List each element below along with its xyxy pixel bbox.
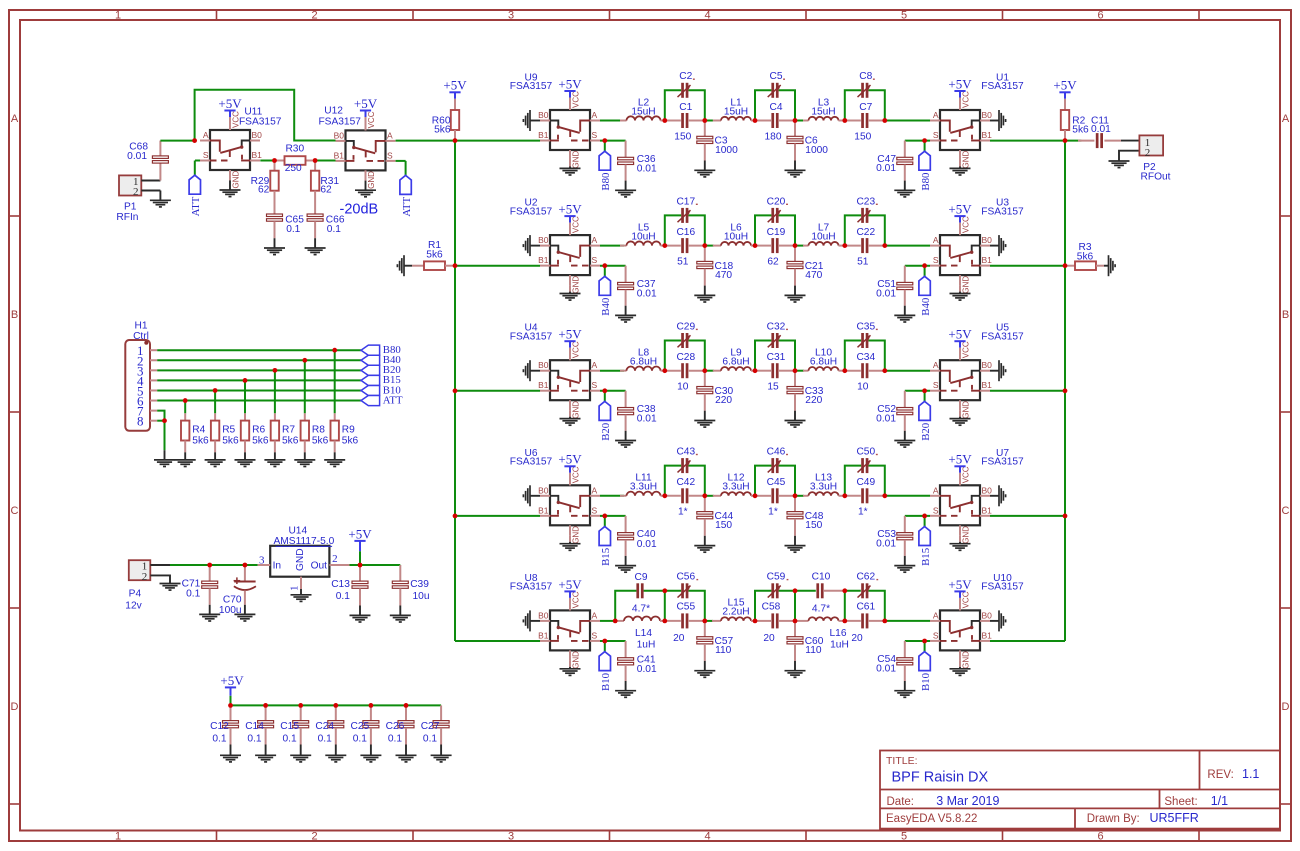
wire H1 pins 7-8 to ground [157, 411, 164, 451]
ground [950, 535, 971, 550]
svg-text:15: 15 [767, 382, 779, 393]
svg-text:6.8uH: 6.8uH [810, 357, 837, 368]
svg-text:C9: C9 [634, 572, 647, 583]
svg-text:A: A [592, 110, 598, 120]
svg-text:B1: B1 [538, 505, 549, 515]
power +5V U8 [558, 577, 582, 611]
ground [324, 452, 345, 466]
capacitor C21 470 shunt [787, 246, 824, 286]
capacitor trimmer C2 [678, 71, 695, 98]
junction [228, 703, 233, 708]
svg-text:A: A [387, 130, 393, 140]
op-amp U1 FSA3157 analog switch [930, 73, 1024, 169]
junction [1063, 514, 1068, 519]
junction [453, 263, 458, 268]
svg-text:220: 220 [715, 395, 732, 406]
svg-text:S: S [203, 150, 209, 160]
capacitor trimmer C20 [767, 196, 788, 223]
svg-text:1000: 1000 [715, 145, 738, 156]
svg-text:GND: GND [962, 276, 971, 294]
capacitor C38 0.01 [618, 391, 657, 431]
svg-text:1/1: 1/1 [1211, 794, 1228, 808]
junction [753, 368, 758, 373]
junction [272, 158, 277, 163]
wire [885, 120, 930, 122]
svg-text:A: A [592, 360, 598, 370]
ground [199, 605, 220, 621]
svg-text:5k6: 5k6 [222, 436, 239, 447]
junction [793, 493, 798, 498]
inductor L16 1uH [795, 617, 849, 650]
svg-text:1*: 1* [858, 507, 868, 518]
ground [220, 170, 241, 197]
svg-text:1uH: 1uH [637, 639, 656, 650]
net label B80 [919, 141, 932, 191]
ground [894, 181, 915, 197]
ground [234, 605, 255, 621]
svg-text:0.01: 0.01 [127, 151, 147, 162]
wire U1 B1 to bus [990, 140, 1065, 142]
wire H1 pin 6 [157, 400, 361, 402]
svg-text:ATT: ATT [383, 394, 403, 406]
ground [325, 745, 346, 762]
svg-text:250: 250 [285, 163, 302, 174]
resistor R29 62 [251, 161, 279, 215]
svg-text:GND: GND [232, 171, 241, 189]
svg-text:180: 180 [765, 131, 782, 142]
svg-text:A: A [1282, 113, 1290, 125]
svg-text:Sheet:: Sheet: [1164, 796, 1197, 808]
svg-text:C1: C1 [679, 102, 692, 113]
junction [922, 388, 927, 393]
junction [702, 493, 707, 498]
svg-text:0.1: 0.1 [212, 734, 226, 745]
net label B40 [599, 266, 612, 316]
wire parallel branch [615, 591, 665, 621]
capacitor C54 0.01 [876, 641, 913, 681]
ground rotated no-connect U3 B0 [990, 235, 1006, 256]
svg-text:P4: P4 [129, 589, 142, 600]
svg-text:FSA3157: FSA3157 [510, 81, 553, 92]
wire [905, 390, 930, 392]
svg-text:B15: B15 [920, 548, 932, 566]
svg-text:C34: C34 [856, 352, 875, 363]
svg-text:Drawn By:: Drawn By: [1087, 813, 1140, 825]
svg-text:12v: 12v [125, 601, 142, 612]
svg-text:2: 2 [311, 9, 317, 21]
junction [702, 368, 707, 373]
svg-text:B1: B1 [538, 630, 549, 640]
ground [950, 660, 971, 675]
ground [264, 452, 285, 466]
svg-text:B: B [11, 309, 18, 321]
svg-text:GND: GND [572, 151, 581, 169]
svg-text:B1: B1 [982, 380, 993, 390]
svg-text:C70: C70 [223, 594, 242, 605]
svg-text:B0: B0 [538, 360, 549, 370]
wire H1 pin 1 [157, 349, 361, 351]
ground [431, 745, 452, 762]
svg-text:C: C [1282, 505, 1290, 517]
svg-text:FSA3157: FSA3157 [981, 457, 1024, 468]
ground [154, 450, 175, 466]
svg-text:3 Mar 2019: 3 Mar 2019 [936, 794, 999, 808]
svg-text:2.2uH: 2.2uH [722, 607, 749, 618]
svg-text:B1: B1 [538, 130, 549, 140]
wire parallel branch [665, 466, 705, 496]
svg-text:S: S [933, 505, 939, 515]
net label B80 [599, 141, 612, 191]
svg-text:C32: C32 [767, 321, 786, 332]
resistor R31 62 [311, 161, 340, 215]
capacitor C70 100u polarized [219, 565, 256, 616]
capacitor C4 180 [755, 102, 795, 143]
op-amp U2 FSA3157 analog switch [510, 198, 600, 294]
junction [263, 703, 268, 708]
ground [220, 745, 241, 762]
svg-text:C16: C16 [676, 227, 695, 238]
svg-text:B0: B0 [982, 485, 993, 495]
junction [602, 514, 607, 519]
capacitor C44 150 shunt [697, 496, 734, 536]
svg-text:S: S [592, 505, 598, 515]
svg-text:1000: 1000 [805, 145, 828, 156]
svg-text:U12: U12 [324, 105, 343, 116]
ground [355, 170, 376, 196]
capacitor C30 220 shunt [697, 371, 734, 411]
wire parallel branch [845, 466, 885, 496]
op-amp U10 FSA3157 analog switch [930, 573, 1024, 669]
svg-text:A: A [933, 360, 939, 370]
ground [894, 431, 915, 447]
junction [882, 243, 887, 248]
wire parallel branch [665, 215, 705, 245]
capacitor C61 20 [845, 601, 885, 644]
ground rotated no-connect U6 B0 [523, 485, 540, 506]
svg-text:B0: B0 [334, 130, 345, 140]
wire parallel branch [755, 591, 795, 621]
op-amp U7 FSA3157 analog switch [930, 448, 1024, 544]
wire [905, 265, 930, 267]
wire U12 A to bus [396, 140, 455, 142]
resistor R60 5k6 pullup [432, 78, 467, 141]
inductor L14 1uH [615, 616, 665, 650]
junction [793, 243, 798, 248]
svg-text:GND: GND [572, 651, 581, 669]
svg-text:+5V: +5V [948, 327, 972, 342]
net label B20 [599, 391, 612, 441]
capacitor C3 1000 shunt [697, 121, 738, 161]
ground [894, 681, 915, 697]
svg-text:C4: C4 [769, 102, 782, 113]
resistor R5 5k6 [211, 413, 239, 452]
svg-text:+5V: +5V [558, 577, 582, 592]
junction [922, 639, 927, 644]
svg-text:GND: GND [962, 651, 971, 669]
svg-text:S: S [592, 255, 598, 265]
svg-text:C28: C28 [676, 352, 695, 363]
wire H1 pin 5 [157, 389, 361, 391]
svg-text:A: A [592, 235, 598, 245]
wire parallel branch [755, 90, 795, 120]
junction [613, 619, 618, 624]
svg-text:6.8uH: 6.8uH [722, 357, 749, 368]
svg-text:S: S [933, 255, 939, 265]
svg-text:C10: C10 [812, 572, 831, 583]
wire [184, 401, 186, 414]
svg-text:20: 20 [673, 633, 685, 644]
capacitor C18 470 shunt [697, 246, 734, 286]
svg-text:0.01: 0.01 [1091, 124, 1111, 135]
svg-text:C26: C26 [386, 721, 405, 732]
ground [390, 606, 411, 623]
svg-text:10uH: 10uH [724, 231, 748, 242]
ground [305, 238, 326, 254]
svg-text:1*: 1* [768, 507, 778, 518]
svg-text:C61: C61 [856, 601, 875, 612]
power +5V U12 [354, 96, 378, 130]
capacitor C24 0.1 [315, 705, 343, 744]
ground [950, 285, 971, 300]
wire [905, 640, 930, 642]
power +5V U3 [948, 202, 972, 236]
svg-text:5k6: 5k6 [342, 436, 359, 447]
svg-text:20: 20 [851, 633, 863, 644]
ground [396, 745, 417, 762]
svg-text:S: S [933, 130, 939, 140]
svg-text:1: 1 [115, 830, 121, 842]
capacitor trimmer C50 [856, 447, 877, 474]
wire bus to U9 B1 [455, 140, 540, 142]
svg-text:C62: C62 [856, 572, 875, 583]
svg-text:C39: C39 [410, 579, 429, 590]
capacitor C55 20 [665, 601, 705, 644]
svg-text:0.1: 0.1 [327, 224, 341, 235]
wire H1 pin 4 [157, 379, 361, 381]
svg-text:1: 1 [115, 9, 121, 21]
junction [702, 619, 707, 624]
svg-text:3: 3 [508, 9, 514, 21]
wire U10 B1 to bus [990, 640, 1065, 642]
svg-text:10: 10 [857, 382, 869, 393]
wire bypass to U12 B0 [195, 90, 336, 141]
svg-text:+5V: +5V [443, 78, 467, 93]
ground [894, 556, 915, 572]
svg-text:B1: B1 [538, 255, 549, 265]
wire U3 B1 to bus [990, 265, 1065, 267]
wire [905, 515, 930, 517]
capacitor trimmer C8 [858, 71, 875, 98]
svg-text:C59: C59 [767, 572, 786, 583]
ground [694, 411, 715, 427]
svg-text:B80: B80 [920, 173, 932, 191]
svg-text:+5V: +5V [948, 452, 972, 467]
wire [350, 564, 401, 566]
svg-text:B0: B0 [982, 235, 993, 245]
capacitor C71 0.1 [182, 565, 218, 605]
resistor R9 5k6 [331, 413, 359, 452]
inductor L8 6.8uH [620, 348, 665, 371]
svg-text:0.1: 0.1 [423, 734, 437, 745]
capacitor C26 0.1 [386, 705, 414, 744]
ground [560, 410, 581, 425]
svg-text:C7: C7 [859, 102, 872, 113]
inductor L5 10uH [620, 222, 665, 245]
svg-text:0.1: 0.1 [353, 734, 367, 745]
junction [453, 388, 458, 393]
svg-text:2: 2 [332, 553, 338, 565]
resistor R6 5k6 [241, 413, 269, 452]
svg-text:10: 10 [677, 382, 689, 393]
capacitor C6 1000 shunt [787, 121, 828, 161]
junction [753, 243, 758, 248]
wire parallel branch [755, 466, 795, 496]
wire [885, 620, 930, 622]
power +5V U14 output [348, 526, 372, 565]
svg-text:B0: B0 [538, 610, 549, 620]
svg-text:GND: GND [572, 276, 581, 294]
svg-text:B15: B15 [600, 548, 612, 566]
svg-text:A: A [592, 485, 598, 495]
svg-text:L16: L16 [830, 628, 847, 639]
svg-text:0.1: 0.1 [186, 588, 200, 599]
junction [882, 493, 887, 498]
svg-text:C29: C29 [676, 321, 695, 332]
svg-text:+5V: +5V [558, 452, 582, 467]
inductor L10 6.8uH [795, 348, 845, 371]
svg-text:B0: B0 [538, 485, 549, 495]
capacitor C16 51 [665, 227, 705, 268]
svg-text:VCC: VCC [367, 111, 376, 128]
junction [313, 158, 318, 163]
wire parallel branch [845, 215, 885, 245]
svg-text:A: A [933, 235, 939, 245]
svg-text:A: A [933, 610, 939, 620]
resistor R8 5k6 [301, 413, 329, 452]
svg-text:5k6: 5k6 [192, 436, 209, 447]
op-amp U5 FSA3157 analog switch [930, 323, 1024, 419]
svg-text:+5V: +5V [348, 526, 372, 541]
capacitor C13 0.1 [331, 565, 368, 606]
capacitor C51 0.01 [876, 266, 913, 306]
svg-text:P1: P1 [124, 202, 137, 213]
capacitor C11 0.01 output coupling [1065, 116, 1121, 149]
svg-text:4: 4 [704, 9, 710, 21]
svg-text:GND: GND [962, 526, 971, 544]
capacitor trimmer C59 [767, 572, 789, 599]
power +5V U6 [558, 452, 582, 486]
svg-text:UR5FFR: UR5FFR [1150, 811, 1199, 825]
svg-text:C23: C23 [856, 196, 875, 207]
wire [315, 160, 335, 162]
net label B15 [919, 516, 932, 566]
svg-text:2: 2 [1145, 147, 1151, 159]
svg-text:470: 470 [805, 270, 822, 281]
wire parallel branch [755, 341, 795, 371]
svg-text:6: 6 [1097, 830, 1103, 842]
junction [753, 493, 758, 498]
svg-text:GND: GND [962, 151, 971, 169]
svg-text:VCC: VCC [572, 591, 581, 608]
junction [183, 398, 188, 403]
ground rotated no-connect U10 B0 [990, 610, 1006, 631]
svg-text:C56: C56 [676, 572, 695, 583]
ground [785, 661, 806, 677]
svg-text:5: 5 [901, 9, 907, 21]
resistor R2 5k6 pullup [1053, 78, 1089, 141]
junction [162, 418, 167, 423]
wire [170, 564, 258, 566]
junction [332, 348, 337, 353]
svg-text:+5V: +5V [354, 96, 378, 111]
junction [842, 118, 847, 123]
capacitor C48 150 shunt [787, 496, 824, 536]
op-amp U6 FSA3157 analog switch [510, 448, 600, 544]
svg-text:150: 150 [854, 131, 871, 142]
junction [882, 118, 887, 123]
svg-text:10uH: 10uH [631, 231, 655, 242]
op-amp U12 FSA3157 analog switch [318, 105, 395, 189]
svg-text:RFOut: RFOut [1140, 172, 1170, 183]
inductor L13 3.3uH [795, 473, 845, 496]
capacitor C49 1* [845, 477, 885, 517]
ground [294, 452, 315, 466]
capacitor C58 20 [755, 601, 795, 644]
svg-text:A: A [11, 113, 19, 125]
svg-text:GND: GND [572, 401, 581, 419]
svg-text:C13: C13 [331, 579, 350, 590]
svg-text:VCC: VCC [962, 466, 971, 483]
capacitor trimmer C32 [767, 321, 788, 348]
svg-text:15uH: 15uH [811, 106, 835, 117]
wire right bus vertical [1064, 141, 1066, 641]
junction [207, 563, 212, 568]
wire [304, 360, 306, 413]
power +5V U1 [948, 76, 972, 110]
junction [922, 514, 927, 519]
junction [842, 243, 847, 248]
svg-text:5k6: 5k6 [426, 249, 443, 260]
svg-text:D: D [1282, 701, 1290, 713]
wire [885, 370, 930, 372]
ground [560, 285, 581, 300]
power +5V U5 [948, 327, 972, 361]
svg-text:C45: C45 [767, 477, 786, 488]
svg-text:VCC: VCC [962, 216, 971, 233]
wire [600, 495, 624, 497]
wire [600, 265, 626, 267]
wire parallel branch [665, 90, 705, 120]
svg-text:B10: B10 [920, 673, 932, 691]
svg-text:S: S [592, 630, 598, 640]
wire [885, 495, 930, 497]
junction [298, 703, 303, 708]
resistor R3 5k6 [1065, 242, 1104, 270]
capacitor C52 0.01 [876, 391, 913, 431]
junction [453, 514, 458, 519]
svg-text:B0: B0 [252, 130, 263, 140]
junction [333, 703, 338, 708]
net label B15 [361, 374, 401, 386]
capacitor C42 1* [665, 477, 705, 517]
net label B20 [361, 364, 401, 376]
capacitor C10 4.7* [812, 572, 845, 615]
svg-text:5: 5 [901, 830, 907, 842]
junction [922, 138, 927, 143]
svg-text:B0: B0 [982, 360, 993, 370]
svg-text:B40: B40 [920, 298, 932, 316]
svg-text:+5V: +5V [948, 202, 972, 217]
